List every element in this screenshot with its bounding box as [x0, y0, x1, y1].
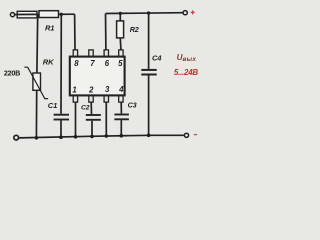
junction C2 / bottom rail: [90, 135, 94, 139]
wire C4 to bottom rail: [148, 76, 150, 136]
pin 4 stub: [119, 95, 123, 102]
capacitor C3: [114, 115, 128, 120]
terminal input top-left: [10, 13, 14, 17]
thermistor RK: [24, 67, 48, 98]
junction RK / bottom rail: [35, 136, 39, 140]
svg-text:C1: C1: [48, 101, 57, 110]
wire R2 to pin 5: [119, 38, 122, 50]
capacitor C1: [54, 115, 69, 120]
node R2 tap: [119, 12, 122, 15]
minus mark: [194, 134, 197, 136]
pin 6 stub: [104, 50, 108, 57]
wire rail corner down to pin 6: [105, 14, 107, 50]
wire pin1 to bottom rail: [75, 102, 77, 137]
resistor R2: [117, 21, 124, 38]
junction C4 / bottom rail: [147, 134, 151, 138]
svg-text:6: 6: [105, 59, 110, 68]
svg-text:R2: R2: [130, 25, 139, 34]
svg-text:5: 5: [118, 59, 123, 68]
svg-text:1: 1: [72, 85, 76, 94]
wire terminal to fuse: [15, 14, 18, 16]
pin 7 stub: [89, 50, 93, 57]
bottom rail: [19, 135, 185, 138]
terminal minus bottom-right: [184, 133, 188, 137]
wire R1 to pin8 corner: [59, 13, 75, 15]
pin 8 stub: [73, 50, 77, 57]
svg-text:3: 3: [105, 85, 110, 94]
junction C3 / bottom rail: [120, 134, 124, 138]
terminal output plus top-right: [183, 11, 187, 15]
resistor R1: [39, 11, 59, 18]
fuse FU1: [17, 11, 37, 18]
plus mark: [191, 10, 195, 14]
wire rail down to C4: [148, 13, 150, 69]
wire RK to bottom rail: [35, 90, 37, 138]
svg-text:R1: R1: [45, 24, 54, 33]
op-amp U1 (8-pin IC): [70, 57, 125, 96]
pin 2 stub: [89, 95, 93, 102]
wire pin4 to C3: [120, 102, 122, 113]
wire pin2 to C2: [90, 102, 92, 114]
svg-text:5...24В: 5...24В: [174, 68, 199, 77]
wire fuse-R1 junction down to RK: [36, 14, 39, 73]
terminal bottom-left: [14, 135, 19, 140]
svg-text:220В: 220В: [4, 68, 20, 77]
pin 5 stub: [119, 50, 123, 57]
output top rail: [106, 12, 184, 15]
wire pin3 to bottom rail: [105, 102, 107, 136]
wire C2 to bottom rail: [91, 121, 93, 137]
svg-text:C4: C4: [152, 53, 162, 62]
node after R1: [60, 13, 63, 16]
pin 1 stub: [73, 95, 77, 102]
wire C1 to bottom rail: [60, 120, 62, 137]
svg-text:C2: C2: [81, 105, 90, 112]
junction pin3 / bottom rail: [105, 134, 109, 138]
capacitor C2: [86, 115, 101, 120]
junction C1 / bottom rail: [59, 135, 63, 139]
wire fuse to R1: [37, 13, 39, 15]
wire down to pin 8: [74, 14, 76, 50]
svg-text:8: 8: [74, 59, 79, 68]
wire C3 to bottom rail: [120, 120, 122, 136]
svg-text:C3: C3: [128, 100, 137, 109]
capacitor C4: [141, 70, 156, 75]
wire rail to R2: [119, 13, 121, 21]
svg-text:7: 7: [90, 59, 95, 68]
junction pin1 / bottom rail: [74, 135, 78, 139]
pin 3 stub: [104, 95, 108, 102]
wire node to C1: [60, 14, 62, 113]
node C4 tap: [147, 11, 150, 14]
svg-text:4: 4: [118, 85, 124, 94]
svg-text:2: 2: [88, 85, 94, 94]
svg-text:RK: RK: [43, 58, 54, 67]
